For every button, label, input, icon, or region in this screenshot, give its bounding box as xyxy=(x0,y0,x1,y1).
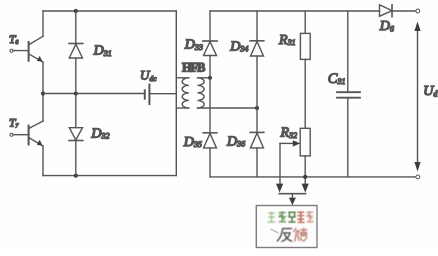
wire: stem into feedback box xyxy=(291,194,293,199)
transistor T7 base bar xyxy=(28,126,30,145)
wire: middle vertical (top rail to bottom rail) xyxy=(175,11,177,176)
node: secondary bottom dot xyxy=(255,106,259,110)
terminal circle output + xyxy=(416,9,420,13)
arrowhead: R32 column into collector bar xyxy=(302,184,309,193)
diode D31 xyxy=(69,43,83,45)
wire: R31 to R32 xyxy=(304,59,306,128)
wire: collector bar of feedback arrows xyxy=(279,193,305,195)
faint stroke left of char xyxy=(271,229,278,233)
wire: bridge right column upper xyxy=(256,11,258,41)
wire: mid horizontal to capacitor xyxy=(43,93,145,95)
wire: right bottom rail xyxy=(210,176,416,178)
terminal circle T6 base xyxy=(10,49,13,52)
char blob 1 (light green) xyxy=(268,212,276,223)
wire: secondary bottom to bridge right column xyxy=(198,107,258,109)
wire: secondary top to bridge left column xyxy=(198,77,211,79)
char fan xyxy=(277,229,291,242)
diode D6 (horizontal) xyxy=(380,5,393,16)
wire: left vertical T7 emitter to bottom rail xyxy=(42,146,44,176)
wire: bridge right column middle xyxy=(256,56,258,132)
wire: D31 column lower xyxy=(75,58,77,94)
node: secondary top dot xyxy=(208,76,212,80)
wire: primary top stub xyxy=(176,77,189,79)
resistor R31 xyxy=(300,33,310,59)
transistor T6 base bar xyxy=(28,42,30,61)
potentiometer R32 xyxy=(300,128,310,156)
transistor T6 base lead xyxy=(13,50,28,52)
node: top rail dot at D31 column xyxy=(74,9,78,13)
feedback box xyxy=(256,206,317,248)
wire: left bottom rail xyxy=(43,175,176,177)
wire: left top rail xyxy=(43,10,176,12)
wire: bridge right column lower xyxy=(256,148,258,177)
diode D32 (pointing down) xyxy=(69,128,82,140)
terminal circle output - xyxy=(416,175,420,179)
capacitor C31 xyxy=(337,91,360,93)
wire: bridge left column lower xyxy=(209,148,211,177)
wire: D32 column lower xyxy=(75,141,77,176)
capacitor Udc plates xyxy=(144,90,146,98)
wire: right top rail (to D6) xyxy=(210,10,380,12)
node: mid junction dot at transistor column xyxy=(41,91,45,95)
node: R32 column / bottom rail dot xyxy=(303,175,307,179)
transistor T7 emitter diagonal with arrow xyxy=(29,138,43,147)
transistor T6 emitter diagonal with arrow xyxy=(29,54,43,62)
wire: bridge left column middle xyxy=(209,56,211,133)
arrowhead: stem into feedback box xyxy=(289,198,296,206)
feedback box text line 2: fan-kui xyxy=(271,228,307,241)
wire: D31 column upper xyxy=(75,11,77,44)
wire: wiper down to feedback xyxy=(279,143,281,183)
char blob 3 (dark green) xyxy=(288,212,295,222)
wire: D32 column upper xyxy=(75,94,77,128)
transformer HFB primary winding xyxy=(182,78,189,108)
wire: capacitor to primary column xyxy=(149,93,176,95)
char kui xyxy=(294,228,307,241)
wire: bridge left column upper xyxy=(209,11,211,41)
feedback box text line 1 (colored blurred chars) xyxy=(268,211,314,222)
char blob 5 (light red) xyxy=(306,211,313,222)
diode D34 xyxy=(250,40,264,42)
diode D36 xyxy=(250,131,264,133)
wire: C31 column lower xyxy=(347,98,349,177)
wire: R32 bottom down through rail xyxy=(304,156,306,184)
wire: left rail down to T6 collector xyxy=(42,11,44,36)
wire: left vertical T6 emitter to mid node xyxy=(42,62,44,121)
char blob 4 (red) xyxy=(297,211,304,222)
voltage arrow Ud (double headed) xyxy=(417,29,419,164)
char blob 2 (green) xyxy=(278,211,286,222)
transformer HFB secondary winding xyxy=(198,78,205,108)
transistor T6 collector diagonal xyxy=(29,36,43,45)
diode D33 xyxy=(203,40,217,42)
node: mid junction dot at D31 column xyxy=(74,91,78,95)
wire: R31 column upper xyxy=(304,11,306,33)
transistor T7 base lead xyxy=(13,134,28,136)
svg-text:HFB: HFB xyxy=(182,60,205,74)
wire: D6 to output terminal xyxy=(392,10,416,12)
wire: C31 column upper xyxy=(347,11,349,92)
arrowhead: wiper line into collector bar xyxy=(276,184,283,193)
node: bottom rail dot at D32 column xyxy=(74,174,78,178)
diode D35 xyxy=(203,132,217,134)
terminal circle T7 base xyxy=(10,133,13,136)
wire: primary bottom stub xyxy=(176,107,189,109)
R32 wiper arrow xyxy=(280,142,294,144)
transistor T7 collector diagonal xyxy=(29,121,43,128)
